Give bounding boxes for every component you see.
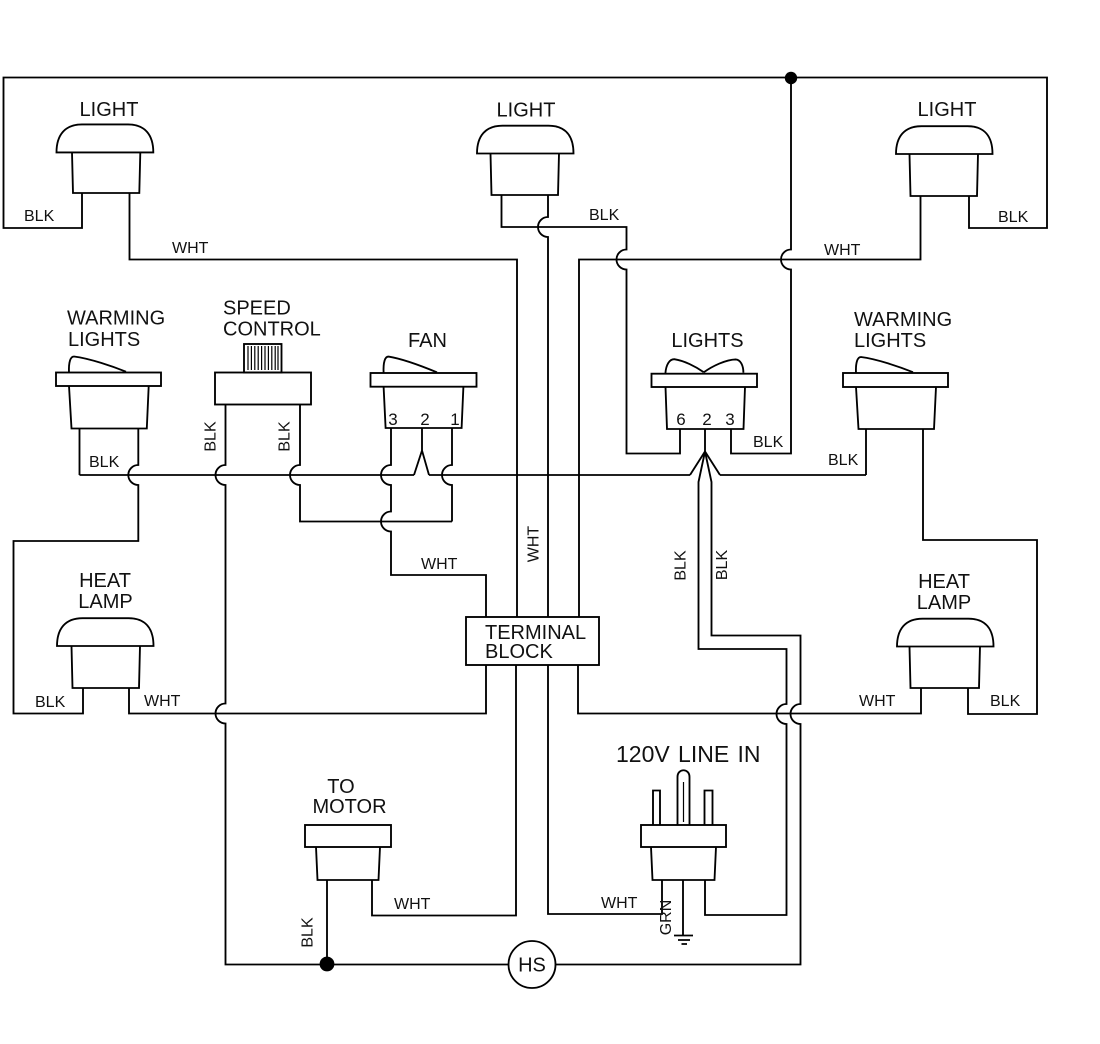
svg-text:1: 1	[450, 410, 459, 429]
svg-text:LAMP: LAMP	[917, 592, 971, 614]
svg-text:BLK: BLK	[89, 454, 120, 471]
svg-text:LIGHTS: LIGHTS	[68, 329, 140, 351]
svg-text:WHT: WHT	[859, 693, 896, 710]
svg-text:BLK: BLK	[203, 421, 220, 452]
svg-text:BLK: BLK	[714, 550, 731, 581]
svg-text:BLOCK: BLOCK	[485, 641, 553, 663]
svg-text:LIGHTS: LIGHTS	[854, 330, 926, 352]
svg-text:WARMING: WARMING	[854, 309, 952, 331]
svg-text:HEAT: HEAT	[79, 570, 131, 592]
svg-text:MOTOR: MOTOR	[312, 796, 386, 818]
svg-text:CONTROL: CONTROL	[223, 319, 321, 341]
svg-text:2: 2	[420, 410, 429, 429]
svg-text:BLK: BLK	[277, 421, 294, 452]
svg-text:3: 3	[388, 410, 397, 429]
svg-text:120V LINE IN: 120V LINE IN	[616, 741, 760, 767]
svg-text:FAN: FAN	[408, 330, 447, 352]
svg-text:BLK: BLK	[998, 209, 1029, 226]
svg-text:BLK: BLK	[24, 208, 55, 225]
svg-text:BLK: BLK	[990, 693, 1021, 710]
svg-text:WHT: WHT	[144, 693, 181, 710]
svg-text:WHT: WHT	[526, 526, 543, 563]
svg-text:HS: HS	[518, 955, 546, 977]
svg-text:6: 6	[676, 410, 685, 429]
svg-text:LIGHT: LIGHT	[918, 99, 977, 121]
svg-text:BLK: BLK	[300, 917, 317, 948]
svg-text:WARMING: WARMING	[67, 308, 165, 330]
svg-text:BLK: BLK	[673, 550, 690, 581]
svg-text:3: 3	[725, 410, 734, 429]
svg-text:LAMP: LAMP	[78, 591, 132, 613]
svg-text:LIGHT: LIGHT	[497, 100, 556, 122]
svg-text:WHT: WHT	[172, 240, 209, 257]
svg-text:TO: TO	[327, 776, 354, 798]
svg-text:BLK: BLK	[35, 694, 66, 711]
svg-text:LIGHTS: LIGHTS	[671, 330, 743, 352]
svg-text:2: 2	[702, 410, 711, 429]
svg-text:HEAT: HEAT	[918, 571, 970, 593]
svg-text:GRN: GRN	[658, 900, 675, 936]
svg-text:WHT: WHT	[394, 896, 431, 913]
svg-text:SPEED: SPEED	[223, 298, 291, 320]
svg-text:WHT: WHT	[601, 895, 638, 912]
svg-text:WHT: WHT	[824, 242, 861, 259]
svg-text:WHT: WHT	[421, 556, 458, 573]
svg-text:BLK: BLK	[828, 452, 859, 469]
svg-text:LIGHT: LIGHT	[80, 99, 139, 121]
svg-text:BLK: BLK	[589, 207, 620, 224]
svg-text:BLK: BLK	[753, 434, 784, 451]
